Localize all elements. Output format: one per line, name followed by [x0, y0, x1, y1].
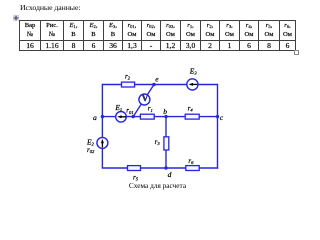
svg-text:r6: r6 [188, 157, 194, 165]
svg-text:r4: r4 [188, 104, 194, 112]
resistor r6 [186, 166, 199, 171]
resistor r4 [185, 114, 199, 119]
wire: left side of loop [101, 84, 103, 168]
table resize handle [294, 50, 299, 55]
resistor r5 [128, 166, 141, 171]
svg-text:b: b [163, 107, 167, 116]
svg-text:r01: r01 [126, 107, 133, 115]
svg-text:r1: r1 [148, 105, 153, 113]
wire: middle branch a-b-c [102, 116, 217, 118]
svg-text:r02: r02 [87, 146, 95, 154]
EMF source E1 [116, 112, 127, 123]
wire: voltmeter branch e to junction [133, 85, 154, 117]
svg-text:Схема для расчета: Схема для расчета [129, 181, 187, 190]
resistor r3 [164, 137, 169, 150]
svg-text:E3: E3 [189, 66, 198, 75]
svg-text:r3: r3 [155, 138, 161, 146]
svg-text:d: d [168, 170, 172, 179]
voltmeter V [139, 94, 150, 105]
node d [164, 166, 167, 169]
svg-text:r2: r2 [125, 72, 131, 80]
svg-text:E1: E1 [114, 103, 122, 112]
resistor r1 [140, 114, 154, 119]
wire: middle vertical branch b-d [165, 117, 167, 168]
EMF source E2 [97, 137, 108, 148]
svg-text:c: c [220, 113, 224, 122]
table move handle icon [13, 15, 19, 21]
heading text [20, 3, 80, 12]
svg-text:e: e [155, 74, 159, 83]
node b [164, 115, 167, 118]
wire: right side of loop [217, 84, 219, 169]
wire: top side of loop [102, 84, 217, 86]
resistor r2 [122, 82, 135, 87]
node e [152, 83, 155, 86]
EMF source E3 [187, 79, 198, 90]
data table [19, 20, 296, 51]
wire: bottom side of loop [102, 167, 219, 169]
svg-text:a: a [93, 113, 97, 122]
circuit schematic svg [0, 0, 300, 191]
node c [216, 115, 219, 118]
node junction E1-r1 [132, 115, 135, 118]
node a [101, 115, 104, 118]
